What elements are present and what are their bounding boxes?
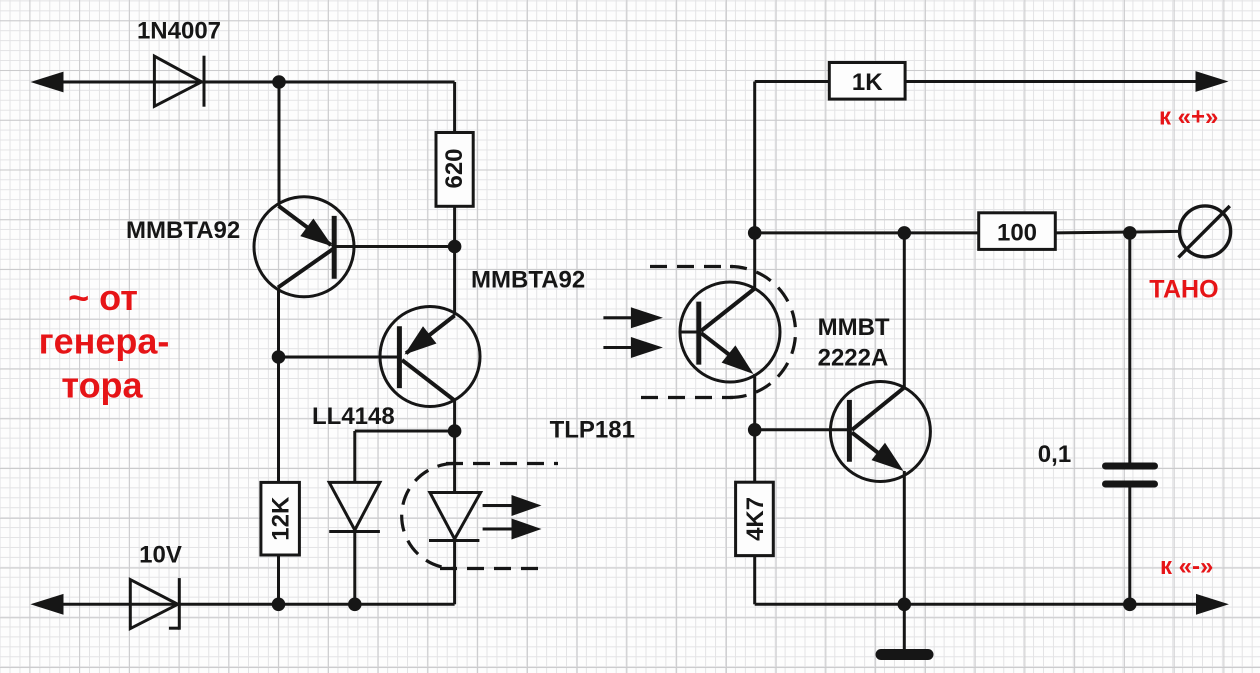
opto light-in arrow 2 [603,337,663,358]
wire: R4K7 top lead [753,430,756,482]
svg-text:ТАНО: ТАНО [1149,276,1218,304]
wire: LL4148 top lead [353,431,356,482]
wire: top-left AC rail [40,81,455,84]
wire: left vertical of right half [753,82,756,233]
wire: bottom-left AC rail [40,603,455,606]
dashed outline LED side of TLP181 [402,464,558,569]
wire: R4K7 bottom lead [753,556,756,605]
wire: ground stub [903,604,906,649]
wire: Q3 emitter down to rail [903,471,906,604]
node: Q3 emitter / ground rail junction [898,598,912,612]
wire: Q2 collector down to node [453,401,456,432]
wire: R620 to node [453,207,456,247]
node: LL4148 bottom rail junction [348,598,362,612]
wire: top rail corner down to R620 [453,82,456,134]
arrow: output to minus [1196,594,1229,615]
LED of optocoupler U1 TLP181 [429,493,481,541]
wire: 100 to TAHO [1055,231,1179,233]
wire: Q3 collector up to node [903,233,906,388]
node: phototransistor collector junction [748,226,762,240]
node: photo emitter / Q3 base / R4K7 junction [748,423,762,437]
label MMBT 2222A [818,314,890,372]
zener diode D2 10V [130,578,179,630]
wire: bottom-right rail [755,603,1200,606]
resistor 12K [261,482,300,555]
svg-text:TLP181: TLP181 [550,417,635,444]
wire: phototransistor emitter down to node [753,374,756,430]
wire: R12K bottom lead [277,555,280,604]
svg-text:4K7: 4K7 [742,497,769,541]
svg-text:MMBT: MMBT [818,314,890,341]
resistor 620 [436,133,473,207]
arrow: left AC input bottom [30,594,63,615]
svg-text:MMBTA92: MMBTA92 [126,217,240,244]
wire: LL4148 bottom lead [353,532,356,605]
resistor 4K7 [736,482,774,555]
wire: node to Q2 emitter [453,247,456,316]
diode LL4148 [329,482,380,531]
arrow: left AC input top [31,72,64,93]
node: junction top-left rail [272,75,286,89]
svg-text:620: 620 [441,148,468,188]
svg-text:2222A: 2222A [818,345,889,372]
node: capacitor bottom rail junction [1123,598,1137,612]
wire: node down to opto LED [453,431,456,493]
node: Q2 collector / LED / LL4148 junction [448,424,462,438]
node: Q3 collector junction [898,226,912,240]
svg-text:LL4148: LL4148 [312,403,395,430]
tacho output symbol [1178,206,1230,258]
resistor 1K [829,63,905,100]
svg-text:1N4007: 1N4007 [137,18,221,45]
wire: capacitor top lead [1128,233,1131,463]
svg-text:100: 100 [997,219,1037,246]
svg-text:0,1: 0,1 [1038,441,1071,468]
capacitor C1 0,1 [1106,466,1155,484]
svg-text:тора: тора [61,365,143,406]
LED light arrow 2 [483,519,542,540]
node: Q1 collector / Q2 base / R12K junction [272,350,286,364]
transistor Q3 MMBT2222A (NPN) [755,382,931,482]
wire: junction down to Q1 emitter [278,82,281,206]
LED light arrow 1 [483,495,542,516]
node: Q1 base / Q2 emitter junction [448,240,462,254]
wire: LED cathode to bottom rail [453,541,456,605]
node: R12K bottom rail junction [272,598,286,612]
svg-text:к «-»: к «-» [1160,553,1213,580]
wire: 1K to output arrow [905,80,1200,83]
arrow: output to plus [1196,71,1229,92]
diode D1 1N4007 [154,56,204,107]
wire: top-right rail [755,80,830,83]
wire: R12K top lead [277,357,280,482]
svg-text:MMBTA92: MMBTA92 [471,267,585,294]
svg-text:~ от: ~ от [68,277,138,318]
ground [881,649,928,660]
optocoupler phototransistor U1 TLP181 [680,282,780,382]
wire: Q1 collector down to node [277,288,280,358]
opto light-in arrow 1 [603,307,663,328]
transistor Q2 MMBTA92 (PNP) [279,307,481,407]
dashed outline phototransistor side of TLP181 [641,267,796,398]
label ~ от генера- тора [39,277,170,406]
svg-text:10V: 10V [139,541,182,568]
transistor Q1 MMBTA92 (PNP) [254,197,455,297]
wire: node to phototransistor collector [753,233,756,289]
svg-text:12K: 12K [268,496,295,541]
wire: mid rail [755,231,979,234]
svg-text:к «+»: к «+» [1159,104,1218,131]
svg-text:генера-: генера- [39,321,170,362]
resistor 100 [979,213,1056,250]
wire: node to LL4148 branch [355,430,455,433]
wire: capacitor bottom lead [1128,487,1131,604]
node: capacitor top junction [1123,226,1137,240]
svg-text:1K: 1K [852,69,883,96]
